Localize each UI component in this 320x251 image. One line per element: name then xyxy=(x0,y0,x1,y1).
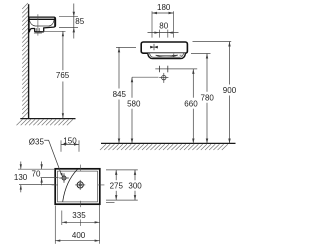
dim 845 xyxy=(118,47,120,88)
basin side-view inner bowl xyxy=(29,20,54,26)
dim 900 xyxy=(229,42,231,85)
dim 80 extension ticks xyxy=(158,30,160,38)
basin side-view body xyxy=(29,17,56,32)
svg-text:765: 765 xyxy=(56,71,70,80)
plan square outer xyxy=(55,169,100,204)
dim 400 line xyxy=(55,240,99,242)
ext 845 xyxy=(116,46,136,48)
dim 85 extension lines xyxy=(59,16,78,18)
svg-text:845: 845 xyxy=(113,90,127,99)
dim 300 xyxy=(134,170,136,180)
drain (plan) xyxy=(77,182,83,188)
svg-text:80: 80 xyxy=(159,22,168,31)
centerline ticks (plan) xyxy=(52,165,105,226)
svg-text:70: 70 xyxy=(32,169,41,178)
tap hole (plan) xyxy=(62,176,66,180)
trap centerline xyxy=(37,14,39,35)
fixing hole left xyxy=(158,66,160,73)
fixing holes line xyxy=(155,68,197,70)
floor line (side view) xyxy=(20,118,75,120)
basin front-view rim xyxy=(141,42,187,53)
trap ribs xyxy=(36,28,39,31)
plan bowl curve xyxy=(63,169,78,201)
svg-text:275: 275 xyxy=(110,182,124,191)
floor hatch (side view) xyxy=(17,119,73,125)
svg-text:900: 900 xyxy=(223,86,237,95)
bowl interior lens xyxy=(156,55,178,57)
dim 660 xyxy=(192,69,194,98)
dim 780 xyxy=(206,54,208,92)
dim 275/300 ext lines xyxy=(106,169,138,171)
ground hatch (front view) xyxy=(100,144,228,150)
leader line Ø35 xyxy=(44,140,61,173)
svg-text:580: 580 xyxy=(127,99,141,108)
dim 130 ext lines xyxy=(18,168,55,170)
drain outlet (front) xyxy=(162,75,166,79)
dim 70 line xyxy=(41,162,43,170)
dim 80 line xyxy=(148,32,179,34)
fixing hole right xyxy=(167,66,169,73)
svg-text:Ø35: Ø35 xyxy=(29,137,45,146)
ext 900 xyxy=(193,41,232,43)
wall line xyxy=(28,4,30,118)
svg-text:780: 780 xyxy=(201,93,215,102)
dim 130 line xyxy=(20,162,22,170)
dim 275 xyxy=(115,170,117,180)
tap hole symbol (front) xyxy=(153,44,155,50)
dim 180 extension lines xyxy=(151,11,153,37)
svg-text:85: 85 xyxy=(75,17,84,26)
svg-text:130: 130 xyxy=(14,173,28,182)
ground line (front view) xyxy=(101,142,236,144)
overflow detail xyxy=(173,54,175,58)
svg-text:150: 150 xyxy=(63,136,77,145)
dim 150 line xyxy=(61,143,79,145)
svg-text:660: 660 xyxy=(184,99,198,108)
svg-text:400: 400 xyxy=(72,231,86,240)
basin side-view inner rim line xyxy=(29,18,54,20)
ext 780 xyxy=(191,53,211,55)
dim 180 line xyxy=(152,12,174,14)
dim 400 ext line xyxy=(54,206,56,244)
wall hatch xyxy=(22,3,28,118)
dim 765 line xyxy=(62,31,64,70)
dim 335 ext lines xyxy=(61,211,63,226)
dim 85 line xyxy=(73,4,75,17)
svg-text:335: 335 xyxy=(72,211,86,220)
svg-text:300: 300 xyxy=(128,182,142,191)
plan square inner xyxy=(58,171,98,202)
basin front-view bowl xyxy=(148,53,186,58)
ext 580 xyxy=(132,76,159,78)
dim 150 extension lines xyxy=(60,140,62,151)
dim 765 extension line xyxy=(42,30,66,32)
dim 580 xyxy=(131,77,133,98)
basin side-view right edge emphasis xyxy=(54,18,56,27)
dim 335 line xyxy=(62,221,100,223)
svg-text:180: 180 xyxy=(157,3,171,12)
